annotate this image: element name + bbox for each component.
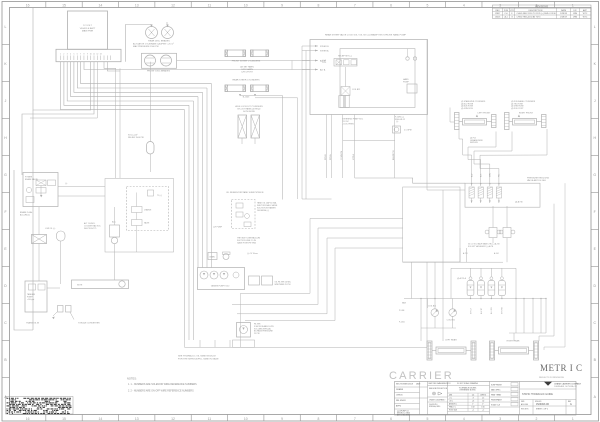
svg-text:3: 3 [499,417,501,421]
svg-text:15: 15 [62,417,66,421]
svg-text:11: 11 [208,3,212,7]
svg-text:2/08/19: 2/08/19 [560,16,568,18]
svg-text:SOL (+) A¹: SOL (+) A¹ [128,134,138,137]
svg-text:10: 10 [244,3,248,7]
svg-text:1: 1 [60,54,61,56]
svg-text:WTC: WTC [583,13,588,15]
svg-text:SEE BOM PROJECTION: SEE BOM PROJECTION [429,388,448,390]
svg-text:LEFT REAR: LEFT REAR [445,338,457,341]
svg-text:SEE HYDRAULIC OIL TANK MODULE: SEE HYDRAULIC OIL TANK MODULE [178,355,216,358]
svg-text:1520463-CD: 1520463-CD [536,404,549,406]
svg-text:METR I C: METR I C [540,363,583,373]
svg-text:11: 11 [208,417,212,421]
svg-text:STEER A: STEER A [320,49,329,52]
svg-text:1: 1 [572,417,574,421]
svg-text:12857: 12857 [495,13,501,15]
svg-text:L-H PUMP: L-H PUMP [213,227,223,229]
svg-text:JRM: JRM [573,16,577,18]
svg-text:REV: REV [495,10,500,12]
svg-text:VALVE: VALVE [144,222,150,225]
svg-text:LEFT FRONT: LEFT FRONT [478,113,492,115]
svg-text:REL ENGR: REL ENGR [396,400,406,402]
svg-text:5: 5 [73,54,74,56]
svg-text:300 PSI B-775: 300 PSI B-775 [84,228,96,230]
svg-text:PRS A: PRS A [329,154,332,160]
svg-text:5: 5 [427,3,429,7]
svg-text:STR LT: STR LT [470,307,472,314]
svg-text:NOTE: NOTE [77,285,83,287]
svg-text:13013: 13013 [495,16,501,18]
svg-text:3: 3 [499,3,501,7]
svg-text:REAR STEER VALVE LOCK SOL VOL: REAR STEER VALVE LOCK SOL VOL 58 CU-IN/A… [325,34,407,37]
svg-text:(4) A 731 A: (4) A 731 A [457,277,467,280]
svg-text:13: 13 [100,54,102,56]
svg-text:STATIC HYDRAULIC GUIDE: STATIC HYDRAULIC GUIDE [522,393,553,396]
svg-text:+100 psi: +100 psi [27,299,35,301]
svg-text:P LINE: P LINE [399,310,405,312]
svg-text:FRONT STEER CYLINDERS: FRONT STEER CYLINDERS [232,61,261,63]
svg-text:SCALE 1=8: SCALE 1=8 [491,403,500,406]
svg-text:TANDEM PUMP P-310: TANDEM PUMP P-310 [211,285,229,288]
svg-text:3: 3 [67,54,68,56]
svg-text:16: 16 [26,417,30,421]
svg-text:REFLECTS P4 REVISIONS: REFLECTS P4 REVISIONS [539,377,565,379]
svg-text:10: 10 [244,417,248,421]
svg-text:12: 12 [171,417,175,421]
svg-text:DESCRIPTION: DESCRIPTION [529,10,543,12]
svg-text:AIR COND ASSY: AIR COND ASSY [397,413,411,416]
svg-text:7: 7 [354,3,356,7]
svg-text:GAGE PORT/FITTING: GAGE PORT/FITTING [237,242,257,245]
svg-text:3-PLY-PORT: 3-PLY-PORT [241,72,253,74]
svg-text:12: 12 [96,54,98,56]
svg-text:RIGHT REAR: RIGHT REAR [507,340,520,343]
svg-text:L: L [594,25,596,29]
svg-text:(4) ROD PORT: (4) ROD PORT [511,108,524,110]
svg-text:COIL B12: COIL B12 [352,89,360,91]
svg-text:REV: REV [568,401,571,403]
svg-text:15: 15 [62,3,66,7]
svg-text:6: 6 [77,54,78,56]
svg-text:COMMON: COMMON [341,151,343,160]
svg-text:NOTES:: NOTES: [127,377,137,381]
svg-text:APP: APP [583,9,588,12]
svg-text:F2810-A, 3810: F2810-A, 3810 [429,405,440,408]
svg-text:OIL RESERVOIR/TANK SUBSYSTEM B: OIL RESERVOIR/TANK SUBSYSTEM B [226,191,264,194]
svg-text:SIZE: SIZE [521,401,524,403]
svg-text:ACTUATOR CYL/BRAKE CALIPER <.: ACTUATOR CYL/BRAKE CALIPER <.25 m³ [133,43,174,46]
svg-text:TORQUE CONVERTER: TORQUE CONVERTER [78,323,100,325]
svg-text:(4) A 730: (4) A 730 [515,201,523,204]
svg-text:8: 8 [84,54,85,56]
svg-text:ACCUM (2): ACCUM (2) [20,213,30,216]
svg-text:A50 D60: A50 D60 [521,403,528,406]
svg-text:AXLE LOCKOUT CYLINDERS: AXLE LOCKOUT CYLINDERS [235,105,263,108]
svg-text:VEHICLE BATT: VEHICLE BATT [80,27,96,30]
svg-text:1: 1 [572,3,574,7]
svg-text:SHEET 1 OF 2: SHEET 1 OF 2 [536,409,548,411]
svg-text:+COIL PRES: +COIL PRES [342,124,354,126]
svg-text:B-1543: B-1543 [243,97,250,99]
svg-text:5: 5 [427,417,429,421]
svg-text:6: 6 [390,3,392,7]
svg-text:YEL: YEL [499,174,501,177]
svg-text:16: 16 [26,3,30,7]
svg-text:BLU RR: BLU RR [491,307,493,314]
svg-text:WTC: WTC [583,16,588,18]
svg-text:3/4 x 1 SOL VALVE MAIN CTRL: 3/4 x 1 SOL VALVE MAIN CTRL (+) A-733 [468,242,500,245]
svg-text:CHGD 7865-0150 AT 7070: CHGD 7865-0150 AT 7070 [517,15,542,18]
svg-text:PRS B: PRS B [325,154,327,160]
svg-text:8: 8 [317,417,319,421]
svg-text:CRANE CARRIER COMPANY: CRANE CARRIER COMPANY [554,383,582,386]
svg-text:STEER B: STEER B [320,46,329,48]
svg-text:L: L [5,25,7,29]
svg-text:RELIEF 1500 PSI: RELIEF 1500 PSI [128,137,144,139]
svg-text:APPD: APPD [396,405,402,408]
svg-text:11: 11 [93,54,95,56]
svg-text:ALT A: ALT A [320,68,326,71]
svg-text:1. 1 - NUMBERS ARE SOLENO: 1. 1 - NUMBERS ARE SOLENOID WIRE REFEREN… [128,383,197,386]
svg-text:CHGD 9867-1130 TO 1135 (+) 9: CHGD 9867-1130 TO 1135 (+) 9841-C-1130 [517,13,557,15]
svg-text:DWG NO: DWG NO [535,401,542,403]
svg-text:G: G [4,173,7,177]
svg-text:RELIEF SET (+): RELIEF SET (+) [338,56,352,58]
svg-text:4: 4 [463,3,465,7]
svg-text:J: J [5,99,7,103]
svg-text:G: G [593,173,596,177]
svg-text:DATE: DATE [561,9,567,12]
svg-text:SAW: SAW [402,301,406,304]
svg-text:FOR THE SERVICE/FILL TANK IN G: FOR THE SERVICE/FILL TANK IN GAGE [178,358,219,361]
svg-text:14: 14 [98,3,102,7]
svg-text:MTR A: MTR A [352,153,355,160]
svg-text:W/BYPASS 25 PSI: W/BYPASS 25 PSI [275,283,291,286]
svg-text:CHARGE: CHARGE [144,209,152,212]
svg-text:9: 9 [281,3,283,7]
svg-text:(+) CV 10mm: (+) CV 10mm [247,253,258,255]
svg-text:F: F [594,210,596,214]
svg-text:JRM: JRM [573,13,577,15]
svg-text:MAIN PWR: MAIN PWR [82,30,94,33]
svg-text:9: 9 [87,54,88,56]
svg-text:G: G [570,404,572,406]
svg-text:2.5 GPM: 2.5 GPM [404,130,412,132]
svg-text:6: 6 [390,417,392,421]
svg-text:2: 2 [63,54,64,56]
svg-text:4: 4 [463,417,465,421]
svg-text:ZON: ZON [504,10,509,12]
svg-text:MAX PRESSURE 1500 PSI: MAX PRESSURE 1500 PSI [133,45,159,48]
svg-text:2: 2 [536,417,538,421]
svg-text:OTHERWISE NOTED: OTHERWISE NOTED [459,390,476,392]
svg-text:2. 2 - NUMBERS ARE ON-OFF: 2. 2 - NUMBERS ARE ON-OFF WIRE REFERENCE… [128,390,194,393]
svg-text:STR RR: STR RR [502,307,504,314]
svg-text:12 VOLT: 12 VOLT [83,25,92,27]
svg-text:DO NOT SCALE DRAWING: DO NOT SCALE DRAWING [457,382,479,385]
svg-text:A-731: A-731 [463,252,468,255]
svg-text:BY-OUT HARN (2) REQD: BY-OUT HARN (2) REQD [238,108,261,111]
svg-text:FINISH/PAINT: FINISH/PAINT [491,398,502,401]
svg-text:T1 (+): T1 (+) [157,195,162,197]
svg-text:LOW OIL (+): LOW OIL (+) [45,228,56,230]
svg-text:9: 9 [281,417,283,421]
svg-text:SOL/LIFT VALVE ASSY (+) A-7: SOL/LIFT VALVE ASSY (+) A-734 [468,245,493,248]
svg-text:SURF FINISH: SURF FINISH [491,384,502,386]
svg-text:P-1200: P-1200 [399,322,405,324]
svg-text:7: 7 [354,417,356,421]
svg-text:DRAIN: DRAIN [209,256,215,259]
svg-text:A-744: A-744 [494,252,499,255]
svg-text:(4) GRN ROD/: (4) GRN ROD/ [461,108,473,110]
svg-text:SERVICE: SERVICE [470,142,479,144]
svg-text:CLEVELAND, OH TULSA, OK: CLEVELAND, OH TULSA, OK [554,385,578,388]
svg-text:B-250 BORE: B-250 BORE [243,111,255,113]
svg-text:F: F [4,210,6,214]
svg-text:FRONT DISC BRAKES: FRONT DISC BRAKES [147,70,170,73]
svg-text:13: 13 [135,3,139,7]
svg-text:14: 14 [98,417,102,421]
svg-text:13: 13 [135,417,139,421]
svg-text:HEAT TREAT: HEAT TREAT [491,393,501,396]
svg-text:BLK/RET B: BLK/RET B [393,150,395,160]
svg-text:25 PSI: 25 PSI [254,333,260,335]
svg-text:CHECK: CHECK [396,395,403,397]
svg-text:VALVE ASSY B-1300: VALVE ASSY B-1300 [527,179,547,182]
svg-text:REAR STEER CYLINDERS: REAR STEER CYLINDERS [232,79,260,82]
svg-text:7: 7 [80,54,81,56]
svg-text:10: 10 [90,54,92,56]
svg-text:DRAWN: DRAWN [396,388,404,391]
svg-text:4: 4 [70,54,71,56]
svg-text:PUMP: PUMP [403,82,409,84]
svg-text:9/28/18: 9/28/18 [560,13,568,15]
svg-text:TRANS OIL IN: TRANS OIL IN [26,322,40,325]
svg-text:100 MESH (+): 100 MESH (+) [257,210,269,212]
svg-text:HYD SYS: HYD SYS [521,409,529,411]
svg-text:BLK RT: BLK RT [481,307,483,314]
svg-text:SECTION/MODULE: SECTION/MODULE [396,384,414,386]
svg-text:RIGHT FRONT: RIGHT FRONT [519,113,534,115]
svg-text:COIL: COIL [322,62,326,64]
svg-text:MATL/SPEC: MATL/SPEC [491,388,501,391]
svg-text:COIL B21: COIL B21 [447,319,455,321]
svg-text:J: J [594,99,596,103]
svg-text:12: 12 [171,3,175,7]
svg-text:LTR: LTR [510,10,514,12]
svg-text:8: 8 [317,3,319,7]
svg-text:CARRIER: CARRIER [389,370,454,382]
svg-text:REAR DISC BRAKES: REAR DISC BRAKES [148,40,170,43]
